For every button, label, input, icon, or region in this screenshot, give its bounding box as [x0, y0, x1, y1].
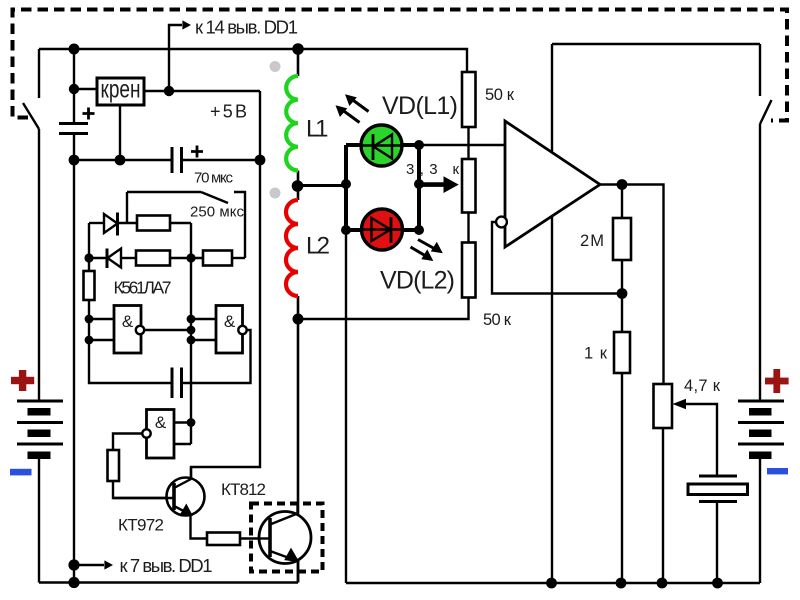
- svg-text:50 к: 50 к: [483, 311, 512, 329]
- svg-text:КТ972: КТ972: [118, 516, 164, 535]
- svg-text:крен: крен: [101, 76, 141, 104]
- svg-text:L2: L2: [306, 233, 330, 260]
- svg-text:+ 5 В: + 5 В: [210, 102, 247, 122]
- svg-text:1 к: 1 к: [584, 345, 608, 363]
- svg-text:2 М: 2 М: [580, 232, 604, 250]
- svg-text:к 14 выв. DD1: к 14 выв. DD1: [195, 17, 298, 38]
- svg-text:70 мкс: 70 мкс: [194, 170, 234, 187]
- svg-text:к 7 выв. DD1: к 7 выв. DD1: [120, 555, 213, 576]
- svg-text:VD(L1): VD(L1): [382, 92, 458, 120]
- svg-text:К561ЛА7: К561ЛА7: [114, 278, 172, 298]
- svg-text:L1: L1: [306, 116, 329, 143]
- svg-text:КТ812: КТ812: [221, 480, 266, 499]
- svg-text:50 к: 50 к: [485, 86, 515, 104]
- svg-text:250 мкс: 250 мкс: [190, 204, 245, 221]
- svg-text:4,7 к: 4,7 к: [684, 377, 721, 395]
- svg-text:VD(L2): VD(L2): [380, 267, 455, 295]
- svg-text:&: &: [122, 312, 134, 331]
- svg-text:&: &: [155, 413, 167, 432]
- svg-text:&: &: [224, 312, 236, 331]
